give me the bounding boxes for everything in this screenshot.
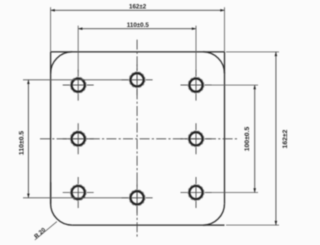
svg-text:R 20: R 20 (34, 227, 48, 240)
svg-text:110±0.5: 110±0.5 (19, 131, 26, 155)
svg-text:162±2: 162±2 (282, 129, 289, 148)
svg-text:110±0.5: 110±0.5 (127, 22, 150, 29)
svg-text:162±2: 162±2 (129, 3, 147, 10)
svg-text:100±0.5: 100±0.5 (244, 127, 251, 152)
